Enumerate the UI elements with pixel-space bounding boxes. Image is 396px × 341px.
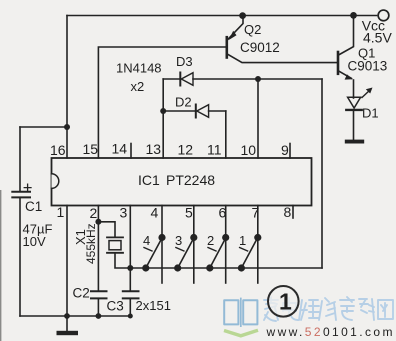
svg-text:C2: C2 (73, 286, 90, 301)
scan edge artifact (0, 190, 1, 341)
wire pin3 (129, 206, 131, 291)
wire ground stub (66, 316, 68, 331)
svg-text:16: 16 (50, 142, 66, 158)
transistor Q1 (337, 52, 340, 74)
svg-text:D2: D2 (175, 95, 192, 110)
svg-text:2: 2 (207, 233, 214, 248)
wire Vcc top rail (67, 15, 377, 17)
svg-text:1: 1 (239, 233, 246, 248)
svg-text:6: 6 (219, 205, 227, 221)
svg-text:8: 8 (284, 204, 292, 220)
capacitor C3 (123, 290, 139, 292)
wire left drop pin16 (66, 16, 68, 159)
switch S2 (222, 234, 229, 241)
svg-text:5: 5 (185, 205, 193, 221)
svg-text:1: 1 (279, 289, 292, 315)
char wang (378, 300, 393, 319)
node ground junction (64, 313, 70, 319)
wire pin11 (225, 111, 227, 158)
switch S3 (190, 234, 197, 241)
svg-text:455kHz: 455kHz (84, 223, 98, 264)
LED D1 (348, 97, 361, 108)
node Q2 emitter/Vcc (239, 12, 246, 19)
svg-text:3: 3 (175, 233, 182, 248)
svg-text:9: 9 (281, 142, 289, 158)
wire pin8 stub (292, 206, 294, 219)
circled 1 marker (268, 286, 299, 317)
node pin10/D3 junction (255, 76, 261, 82)
svg-text:11: 11 (207, 142, 222, 158)
svg-text:4: 4 (143, 233, 150, 248)
node Q1 collector/Vcc (350, 12, 357, 19)
svg-text:4.5V: 4.5V (363, 29, 392, 45)
capacitor C1 (19, 127, 21, 191)
wire pin5 (193, 206, 195, 284)
svg-text:D1: D1 (362, 106, 379, 121)
watermark book icon (224, 298, 257, 327)
LED D1 arrow (362, 90, 371, 98)
svg-text:15: 15 (83, 141, 99, 157)
wire pin6 (225, 206, 227, 284)
wire switch common rail (130, 267, 322, 269)
char zi (340, 297, 354, 320)
svg-text:7: 7 (252, 205, 260, 221)
svg-text:2: 2 (90, 205, 98, 221)
node pin13/D2 junction (160, 108, 166, 114)
ground main (57, 331, 79, 335)
char wei (299, 300, 319, 320)
svg-text:2x151: 2x151 (136, 298, 171, 313)
svg-text:10V: 10V (23, 234, 46, 249)
wire pin9 stub (289, 144, 291, 159)
svg-text:x2: x2 (131, 79, 145, 94)
svg-text:PT2248: PT2248 (166, 172, 215, 188)
capacitor C2 (91, 290, 107, 292)
wire pin10 (257, 79, 259, 158)
IC1 PT2248 body (52, 158, 312, 206)
power Vcc terminal (378, 10, 389, 21)
svg-text:C1: C1 (25, 199, 42, 214)
switch S4 (158, 234, 165, 241)
diode D2 (163, 110, 196, 112)
svg-text:10: 10 (241, 142, 257, 158)
svg-text:13: 13 (146, 141, 162, 157)
node C1/pin16 junction (64, 124, 70, 130)
wire pin14 stub (130, 144, 132, 159)
svg-text:12: 12 (178, 142, 194, 158)
svg-text:1: 1 (57, 204, 65, 220)
transistor Q2 (226, 37, 229, 57)
node pin2/X1 junction (95, 219, 101, 225)
char jia (264, 297, 278, 321)
svg-text:C9012: C9012 (240, 40, 280, 55)
wire pin4 (161, 206, 163, 284)
crystal X1 (98, 222, 115, 237)
svg-text:C3: C3 (107, 299, 124, 314)
wire pin13 (162, 79, 164, 158)
wire pin15 to Q2 base (98, 47, 226, 158)
svg-text:4: 4 (151, 205, 159, 221)
svg-text:C9013: C9013 (348, 59, 388, 74)
node C3/rail junction (128, 314, 133, 319)
watermark chinese characters (approx strokes) (264, 297, 393, 321)
watermark book ribbon (224, 330, 258, 336)
svg-text:D3: D3 (176, 54, 193, 69)
svg-text:Q2: Q2 (244, 22, 261, 37)
char xiu (319, 298, 336, 320)
node C2/rail junction (96, 313, 102, 319)
ground D1 (345, 140, 364, 144)
svg-text:3: 3 (120, 205, 128, 221)
svg-text:1N4148: 1N4148 (116, 61, 162, 76)
wire bottom-left rail (20, 315, 132, 317)
wire right drop (321, 79, 323, 268)
wire C1 top link (20, 126, 67, 128)
char liao (359, 299, 374, 320)
wire pin2 (97, 206, 99, 291)
switch S1 (254, 234, 261, 241)
diode D3 (163, 78, 180, 80)
node pin3/rail junction (127, 265, 133, 271)
svg-text:IC1: IC1 (138, 172, 160, 188)
svg-text:www.520101.com: www.520101.com (266, 325, 395, 339)
svg-text:14: 14 (112, 141, 128, 157)
wire pin7 (257, 206, 259, 284)
char dian (283, 298, 298, 320)
wire pin1 (66, 206, 68, 317)
